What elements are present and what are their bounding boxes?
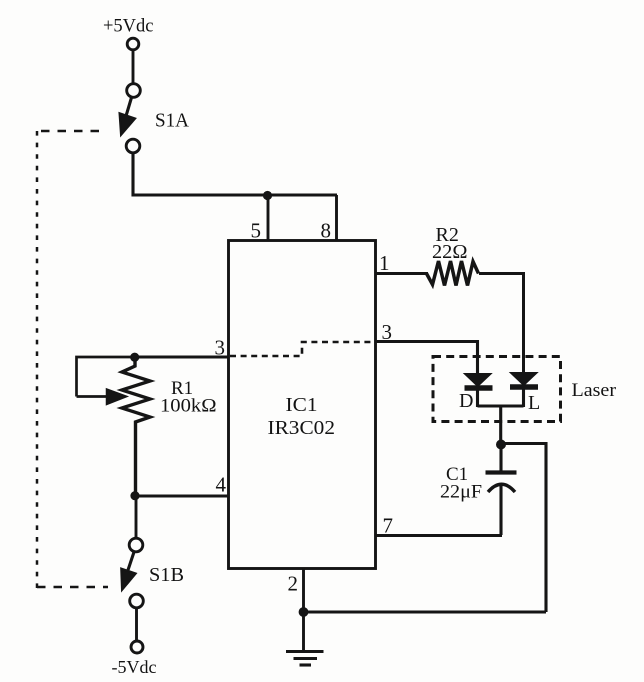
wire pin 4 xyxy=(135,494,229,497)
terminal -5Vdc xyxy=(131,641,143,653)
svg-text:100kΩ: 100kΩ xyxy=(160,396,217,417)
wire ground rail xyxy=(304,610,547,613)
svg-text:2: 2 xyxy=(288,572,299,596)
svg-text:S1A: S1A xyxy=(155,111,189,132)
wire R2 to diode L xyxy=(479,274,524,375)
terminal +5Vdc xyxy=(127,38,139,50)
svg-text:-5Vdc: -5Vdc xyxy=(112,657,157,677)
switch S1B arm xyxy=(121,552,136,590)
wire pin 8 xyxy=(335,195,338,241)
wire R1 top to wiper branch xyxy=(77,357,136,397)
svg-text:S1B: S1B xyxy=(149,564,184,586)
ground xyxy=(286,612,324,665)
svg-text:4: 4 xyxy=(216,473,227,497)
svg-text:7: 7 xyxy=(383,514,394,538)
svg-text:Laser: Laser xyxy=(572,381,617,401)
svg-text:1: 1 xyxy=(379,251,390,275)
junction laser C1 xyxy=(496,440,506,450)
wire pin 3 left xyxy=(135,355,228,358)
net dashed internal pin3 path xyxy=(230,342,374,356)
svg-text:+5Vdc: +5Vdc xyxy=(103,17,154,37)
junction supply rail xyxy=(263,191,272,200)
switch S1B pole contact xyxy=(129,538,143,552)
IC IC1 body xyxy=(229,241,376,569)
wire pin 2 xyxy=(302,568,305,612)
wire dashed gang link S1A top run xyxy=(36,130,99,133)
wire pin 1 to R2 xyxy=(376,272,428,275)
laser module dashed box xyxy=(433,357,561,422)
wire dashed gang link S1B bottom run xyxy=(37,586,108,589)
switch S1A throw contact xyxy=(126,139,140,153)
resistor R1 body xyxy=(122,357,150,496)
switch S1A arm xyxy=(120,98,136,136)
svg-text:IC1: IC1 xyxy=(286,394,318,416)
wire pin 3 to diode D xyxy=(376,342,478,376)
wire S1B to -5Vdc xyxy=(135,608,138,642)
wire laser to junction xyxy=(499,406,502,444)
svg-text:5: 5 xyxy=(251,219,262,243)
wire junction to right rail xyxy=(501,444,546,613)
svg-text:IR3C02: IR3C02 xyxy=(268,417,336,439)
capacitor C1 xyxy=(486,444,517,535)
svg-text:D: D xyxy=(459,390,473,412)
junction R1 top xyxy=(130,353,139,362)
resistor R2 xyxy=(427,261,479,286)
diode D xyxy=(464,374,493,408)
switch S1A pole contact xyxy=(127,84,141,98)
svg-text:22Ω: 22Ω xyxy=(432,242,468,263)
junction ground xyxy=(299,607,309,617)
svg-text:L: L xyxy=(528,392,540,414)
diode L xyxy=(510,373,538,408)
wire S1A to supply rail xyxy=(133,153,337,195)
wire +5Vdc to S1A pole xyxy=(132,50,135,83)
wire diode cathodes join xyxy=(478,405,524,408)
svg-text:8: 8 xyxy=(321,219,332,243)
potentiometer R1 wiper arrow xyxy=(77,389,128,405)
wire pin 7 to C1 xyxy=(376,534,502,537)
junction R1 bottom xyxy=(130,491,139,500)
switch S1B throw contact xyxy=(130,594,144,608)
svg-text:22μF: 22μF xyxy=(440,483,482,503)
wire pin 5 xyxy=(267,195,270,241)
wire R1 bottom to S1B xyxy=(135,496,138,539)
wire dashed gang link vertical run xyxy=(36,131,39,588)
